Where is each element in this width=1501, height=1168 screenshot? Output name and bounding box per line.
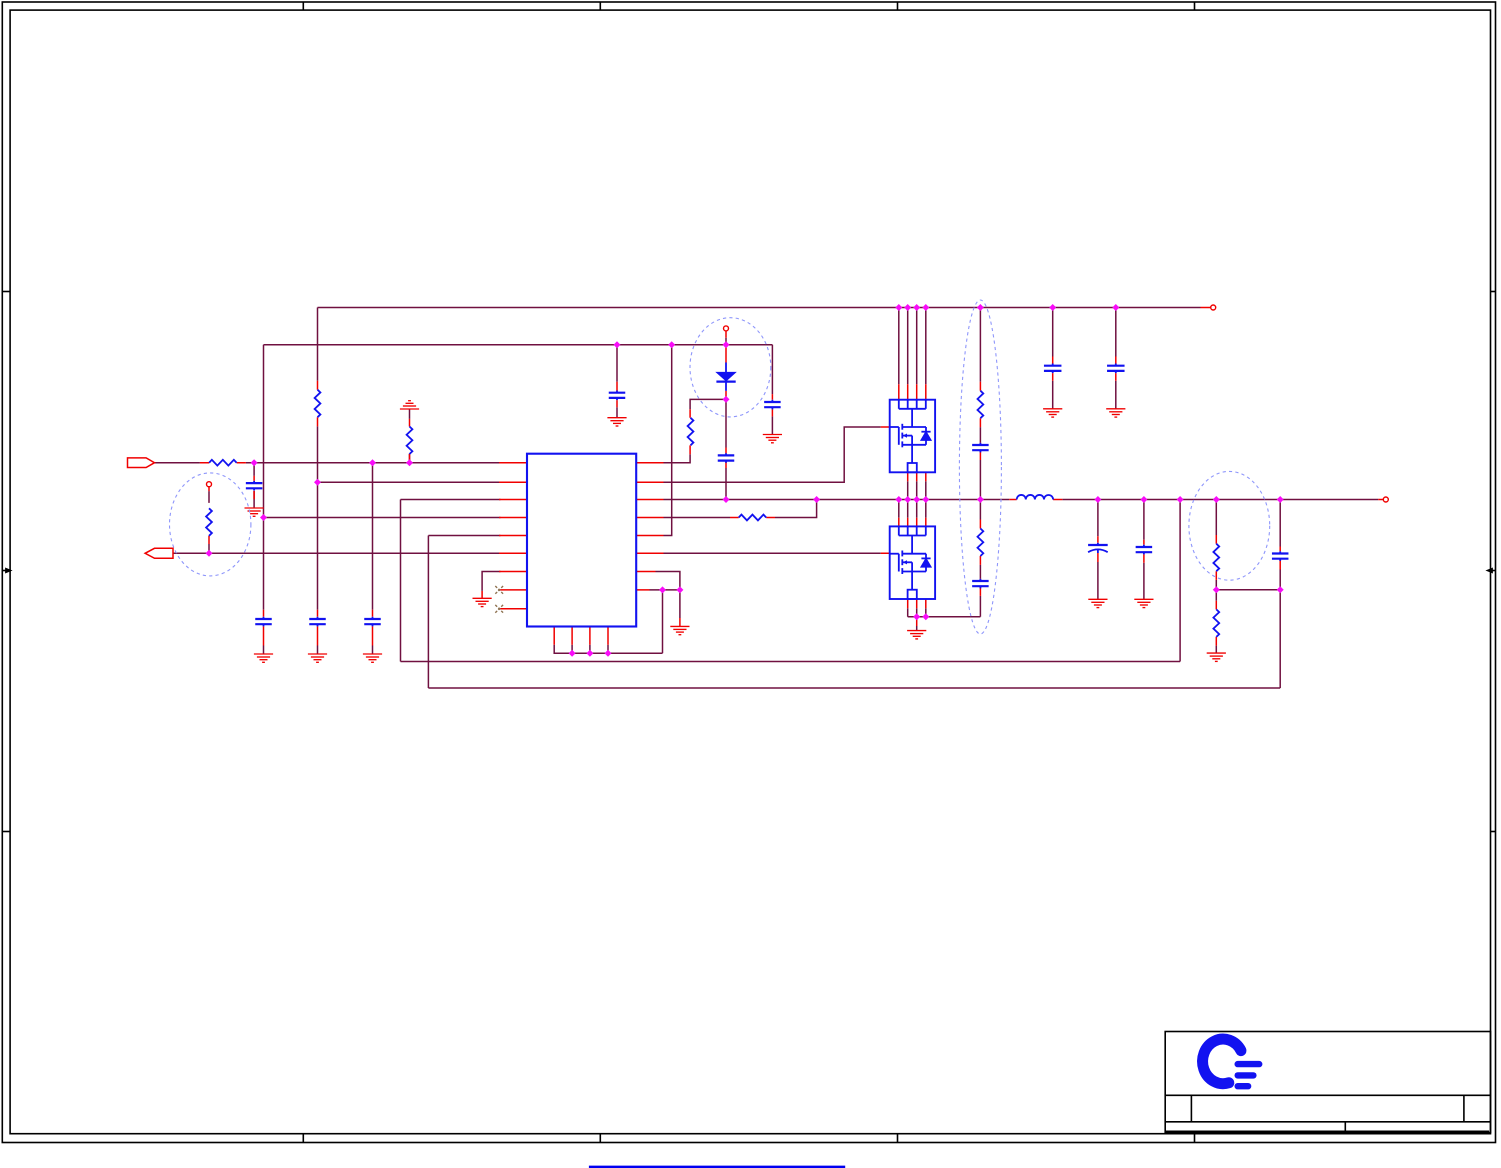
connector J-OUT output flag xyxy=(145,548,173,558)
capacitor C-in bulk2 xyxy=(1107,364,1125,374)
junction dots xyxy=(206,304,1284,657)
ground (under C x253.6) xyxy=(245,508,264,516)
inductor L1 xyxy=(1017,495,1053,500)
resistor R-fb lower xyxy=(1213,609,1219,637)
resistor R snubber lower xyxy=(978,529,984,557)
ground (under C-in bulk2) xyxy=(1106,409,1125,417)
ground (under R-fb lower) xyxy=(1207,653,1226,661)
highlight ellipse (boot diode) xyxy=(690,318,771,417)
resistor R x738-766 (SW sense) xyxy=(739,515,767,521)
capacitor C x253.6 xyxy=(246,481,263,491)
capacitor C snubber upper xyxy=(972,443,989,453)
transistor Q2 low-side MOSFET module xyxy=(890,526,935,599)
no-connect X pin8 xyxy=(495,586,503,594)
center arrow right xyxy=(1492,570,1495,572)
resistor R x409 (to power flag) xyxy=(407,427,413,455)
ground (under C x771.9) xyxy=(763,435,782,443)
node VOUT terminal xyxy=(1383,497,1388,502)
power ground symbol (inverted, x409) xyxy=(400,401,419,409)
ground (under C x263) xyxy=(254,654,273,662)
resistor R snubber upper xyxy=(978,391,984,419)
node terminal (boot) xyxy=(724,326,729,331)
title block frame xyxy=(1165,1032,1490,1133)
border zone ticks left xyxy=(2,292,10,832)
ground (under C-in bulk1) xyxy=(1043,409,1062,417)
border zone ticks top xyxy=(303,2,1194,10)
hyperlink underline xyxy=(589,1166,845,1168)
op-amp/regulator U1 body xyxy=(527,454,636,627)
ground (under C x372) xyxy=(363,654,382,662)
ground (IC pin7) xyxy=(473,598,492,606)
no-connect X pin9 xyxy=(495,605,503,613)
resistor R x690 (boot) xyxy=(688,418,694,446)
capacitor C snubber lower xyxy=(972,579,989,589)
ground (IC right) xyxy=(670,626,689,634)
ground (under C x616.5) xyxy=(607,418,626,426)
node VIN terminal xyxy=(1211,305,1216,310)
center arrow left xyxy=(3,570,6,572)
resistor R-in (input series) xyxy=(209,460,237,466)
capacitor C x372 xyxy=(364,617,381,627)
highlight ellipse (snubber chain) xyxy=(959,300,1001,634)
ground (FET source) xyxy=(907,631,926,639)
highlight ellipse (input divider) xyxy=(170,473,251,576)
diode D1 (zener) xyxy=(716,363,735,391)
highlight ellipse (feedback divider) xyxy=(1189,471,1270,580)
capacitor C-out ceramic xyxy=(1136,545,1153,555)
resistor R x317 xyxy=(315,390,321,418)
connector J-IN input flag xyxy=(128,458,155,468)
ground (under C x317) xyxy=(308,654,327,662)
ground (under C-out cer) xyxy=(1134,599,1153,607)
capacitor C-ff feedforward xyxy=(1272,551,1289,561)
capacitor C x317 xyxy=(309,617,326,627)
logo C arc xyxy=(1203,1039,1241,1084)
border zone ticks bottom xyxy=(303,1134,1194,1143)
node terminal (enable) xyxy=(207,482,212,487)
capacitor C x263 xyxy=(255,617,272,627)
capacitor C-boot x725.5 xyxy=(718,453,735,463)
resistor R x208.5 (enable divider) xyxy=(206,508,212,536)
capacitor C x616.5 xyxy=(609,391,626,401)
logo bars xyxy=(1238,1064,1260,1086)
capacitor C-out polarized xyxy=(1088,543,1108,553)
red leads pin4 resistor xyxy=(155,308,1379,689)
resistor R-fb upper xyxy=(1213,544,1219,572)
border zone ticks right xyxy=(1491,292,1496,832)
capacitor C x771.9 xyxy=(764,400,781,410)
capacitor C-in bulk1 xyxy=(1044,364,1062,374)
ground (under C-out pol) xyxy=(1088,599,1107,607)
transistor Q1 high-side MOSFET module xyxy=(890,400,935,473)
